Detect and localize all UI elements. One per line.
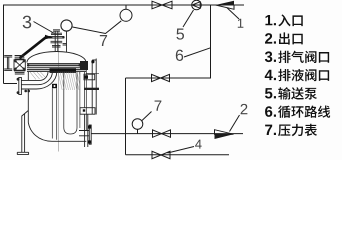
arrow 1: inlet flow arrow: [216, 1, 235, 5]
elbow joint block: [52, 84, 57, 88]
vessel shell walls: [27, 72, 29, 123]
left inlet fitting: I-shaped spool: [4, 56, 12, 71]
label 6: [176, 50, 183, 61]
label 2: [241, 104, 248, 114]
valve on drain line: [152, 151, 170, 158]
legend line 2.出口: [265, 33, 276, 43]
wire: top inlet pipe: [4, 5, 245, 84]
arrow 2: outlet flow arrow: [215, 130, 234, 135]
wire: outlet pipe (line 2): [91, 133, 243, 135]
vent valve stack on dome (item 3): [49, 30, 64, 52]
label 7 top: [100, 35, 107, 46]
internal dip pipe below elbow: [52, 88, 56, 140]
dished bottom head: [28, 123, 86, 142]
leader line to label 1: [227, 8, 239, 19]
flange tie-rod dots: [27, 64, 29, 66]
leader line of bottom label 7 to gauge: [142, 112, 152, 121]
pressure gauge mounted on dome (item 7): [61, 20, 72, 31]
label 4: [195, 140, 202, 149]
pressure gauge 7 hanging from top pipe: [125, 5, 127, 10]
leader line to label 2: [230, 115, 240, 132]
label 3: [23, 16, 32, 29]
filter machine: vertical centerline: [58, 44, 60, 152]
leader line of label 6 to circulation riser: [184, 48, 211, 57]
legend line 3.排气阀口: [265, 51, 276, 62]
vessel dome head: [27, 52, 86, 63]
outlet elbow pipe: [22, 72, 49, 81]
label 1: [238, 19, 244, 28]
pump 5 (transfer pump symbol): [192, 0, 202, 10]
legend line 5.输送泵: [265, 88, 276, 98]
wire: drain line (net 4): [126, 154, 230, 156]
hatch inside upper chamber: [58, 72, 83, 90]
leader line to label 4: [168, 147, 195, 154]
outlet elbow flange at left: [19, 78, 22, 95]
leader lines of top label 7 (to both gauges): [73, 21, 122, 34]
valve on outlet pipe: [153, 130, 171, 137]
top flange band (dark): [27, 63, 87, 65]
flange dots under elbow: [24, 90, 27, 93]
legend line 6.循环路线: [265, 106, 276, 117]
left support leg with foot pad: [22, 111, 29, 153]
wire: inlet stub into filter elbow flange: [4, 83, 18, 85]
pressure gauge 7 on outlet pipe: [132, 119, 143, 130]
legend line 7.压力表: [265, 125, 276, 135]
legend line 1.入口: [265, 15, 276, 25]
leader line of label 3 to vent valve: [34, 22, 55, 34]
wire: circulation downcomer: [125, 78, 127, 155]
leader line of label 5 to pump: [183, 10, 194, 27]
right leg: [85, 114, 88, 147]
left inlet valve block with X: [14, 56, 25, 75]
label 5: [176, 28, 184, 39]
right support bracket: [80, 108, 95, 115]
wire: circulation riser (net 6): [126, 5, 211, 78]
right side column / level gauge: [92, 59, 96, 115]
inner filter element tube: [64, 72, 77, 134]
legend line 4.排液阀口: [265, 70, 276, 80]
vent valve handle (thick lever): [20, 37, 47, 58]
light hatch above elbow: [30, 72, 45, 80]
label 7 bottom: [155, 100, 162, 110]
bottom outlet nozzle with flange: [79, 131, 89, 136]
valve on circulation line: [152, 74, 170, 81]
valve on top inlet pipe: [152, 1, 172, 9]
